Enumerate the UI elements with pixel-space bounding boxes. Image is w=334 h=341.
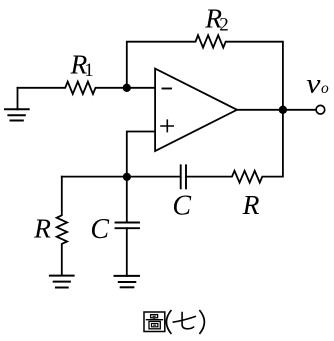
svg-text:R: R: [33, 213, 51, 244]
svg-text:o: o: [321, 80, 329, 97]
svg-text:C: C: [172, 190, 191, 221]
svg-text:2: 2: [219, 15, 229, 36]
svg-text:1: 1: [84, 60, 94, 81]
svg-text:v: v: [306, 68, 321, 99]
svg-text:C: C: [90, 214, 109, 245]
svg-text:R: R: [242, 189, 260, 220]
